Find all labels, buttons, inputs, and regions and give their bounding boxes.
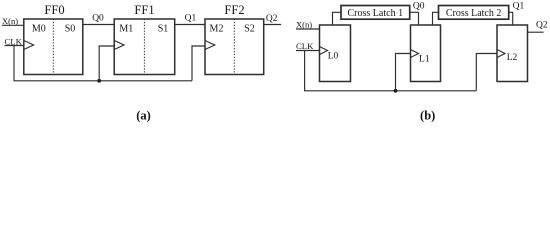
svg-text:Q0: Q0 (413, 1, 425, 11)
svg-text:Cross Latch 2: Cross Latch 2 (446, 8, 502, 19)
svg-text:CLK: CLK (296, 41, 314, 51)
label L2 (507, 53, 518, 63)
latch L2 (497, 25, 528, 82)
label Q0 (b) (413, 1, 425, 11)
wire Q0 (83, 24, 114, 26)
label X(n) input (b) (296, 20, 312, 30)
flip-flop FF2 (205, 19, 264, 75)
label Cross Latch 2 (446, 8, 502, 19)
svg-text:M2: M2 (210, 24, 224, 35)
svg-text:L2: L2 (507, 53, 518, 63)
node clock junction (b) (394, 89, 398, 93)
caption (a) (136, 109, 151, 123)
FF2 clock triangle (205, 41, 215, 50)
svg-text:Q2: Q2 (536, 21, 548, 31)
label CLK (a) (5, 36, 23, 46)
wire CLK into L0 (296, 50, 320, 52)
svg-text:M1: M1 (119, 24, 133, 35)
svg-text:L0: L0 (328, 52, 339, 62)
wire clock up to L2 (476, 54, 497, 91)
wire X(n) into L0 (296, 28, 320, 30)
FF0 master/slave divider (52, 19, 54, 75)
wire X(n) into FF0 (2, 24, 24, 26)
label S0 (65, 24, 76, 35)
wire U1 right to L1 top (410, 12, 419, 25)
svg-text:Q2: Q2 (266, 14, 278, 24)
FF2 master/slave divider (233, 19, 235, 75)
L1 clock triangle (411, 50, 419, 58)
label M1 (119, 24, 133, 35)
svg-text:(a): (a) (136, 109, 151, 123)
node clock junction (a) (97, 79, 101, 83)
label CLK (b) (296, 41, 314, 51)
label FF0 (44, 3, 64, 17)
svg-text:S1: S1 (158, 24, 169, 35)
cross latch U1 (341, 6, 410, 20)
label FF1 (134, 3, 154, 17)
wire CLK branch down (a) (14, 46, 192, 81)
svg-text:S2: S2 (244, 24, 255, 35)
L2 clock triangle (497, 50, 505, 58)
wire clock up to L1 (396, 54, 411, 91)
svg-text:Q0: Q0 (92, 13, 104, 23)
wire clock up to FF2 (192, 46, 205, 81)
svg-text:X(n): X(n) (2, 16, 18, 26)
wire U1 left to L0 top (333, 12, 342, 25)
wire Q2 output (b) (528, 31, 544, 33)
svg-text:(b): (b) (420, 109, 435, 123)
caption (b) (420, 109, 435, 123)
svg-text:X(n): X(n) (296, 20, 312, 30)
svg-text:FF1: FF1 (134, 3, 154, 17)
svg-text:Cross Latch 1: Cross Latch 1 (348, 8, 404, 19)
FF1 clock triangle (114, 41, 124, 50)
svg-text:CLK: CLK (5, 36, 23, 46)
latch L1 (411, 25, 441, 82)
wire clock up to FF1 (99, 46, 114, 81)
FF0 clock triangle (24, 41, 34, 50)
label L0 (328, 52, 339, 62)
L0 clock triangle (320, 47, 328, 55)
wire CLK into FF0 (5, 45, 24, 47)
latch L0 (320, 25, 351, 82)
wire Q1 (175, 24, 205, 26)
svg-text:S0: S0 (65, 24, 76, 35)
label Cross Latch 1 (348, 8, 404, 19)
flip-flop FF1 (114, 19, 175, 75)
label Q1 (a) (185, 13, 197, 23)
FF1 master/slave divider (143, 19, 145, 75)
label Q2 (b) (536, 21, 548, 31)
label S1 (158, 24, 169, 35)
wire CLK branch down (b) (305, 51, 477, 91)
wire Q2 output (a) (264, 24, 281, 26)
label S2 (244, 24, 255, 35)
wire U2 left to L1 top (433, 12, 439, 25)
label Q0 (a) (92, 13, 104, 23)
wire U2 right to L2 top (509, 12, 513, 25)
label X(n) input (a) (2, 16, 18, 26)
flip-flop FF0 (24, 19, 83, 75)
label M0 (32, 24, 46, 35)
svg-text:FF2: FF2 (224, 3, 244, 17)
svg-text:L1: L1 (419, 54, 430, 64)
svg-text:Q1: Q1 (513, 1, 525, 11)
label FF2 (224, 3, 244, 17)
label Q1 (b) (513, 1, 525, 11)
svg-text:FF0: FF0 (44, 3, 64, 17)
label Q2 (a) (266, 14, 278, 24)
svg-text:M0: M0 (32, 24, 46, 35)
svg-text:Q1: Q1 (185, 13, 197, 23)
label L1 (419, 54, 430, 64)
cross latch U2 (439, 6, 509, 20)
label M2 (210, 24, 224, 35)
